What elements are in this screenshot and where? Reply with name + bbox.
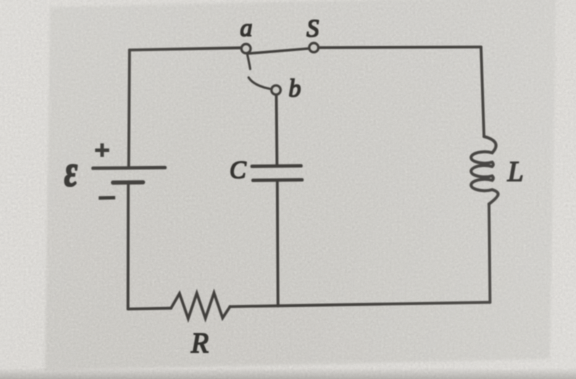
label L (inductor) (507, 156, 524, 188)
label S (switch) (307, 16, 320, 43)
wire: left side vertical (battery - plate down to bottom-left corner) (127, 184, 130, 309)
wire: capacitor branch from switch terminal b down to capacitor (275, 95, 279, 165)
bottom photo edge shading (0, 368, 576, 379)
battery negative short plate (113, 180, 143, 185)
wire: left side vertical (top-left corner down to battery + plate) (127, 50, 131, 166)
capacitor C top plate (252, 164, 301, 168)
battery positive long plate (93, 166, 165, 170)
battery minus sign (99, 196, 115, 199)
capacitor C bottom plate (253, 178, 302, 182)
wire: right side vertical upper (top-right corner to inductor) (481, 47, 484, 137)
label R (resistor) (190, 328, 209, 360)
wire: top right segment from switch S to top-right corner (319, 46, 482, 49)
label C (capacitor) (230, 157, 247, 184)
label epsilon (EMF) (64, 147, 77, 196)
wire: bottom middle segment (resistor to capacitor-branch junction) (230, 304, 278, 308)
switch hinge terminal S (open circle) (309, 43, 318, 52)
switch blade from a toward S (249, 49, 310, 54)
battery plus sign (96, 144, 109, 157)
wire: capacitor down to bottom wire junction (276, 182, 280, 306)
inductor L coil (471, 137, 498, 205)
label b (switch position) (289, 75, 302, 102)
wire: bottom left segment (bottom-left corner to resistor) (128, 307, 171, 311)
wire: top left segment from top-left corner to switch terminal a (130, 48, 242, 50)
label a (switch position) (240, 15, 253, 42)
switch terminal a (open circle) (241, 44, 250, 53)
switch throw arc from a toward b (lower segment) (249, 78, 270, 89)
switch terminal b (open circle) (271, 85, 280, 94)
wire: right side vertical lower (inductor to bottom-right corner) (489, 204, 490, 302)
switch throw arc from a toward b (upper segment) (247, 54, 250, 69)
wire: bottom right segment (junction to bottom-right corner) (278, 302, 490, 306)
resistor R zigzag (171, 293, 230, 319)
